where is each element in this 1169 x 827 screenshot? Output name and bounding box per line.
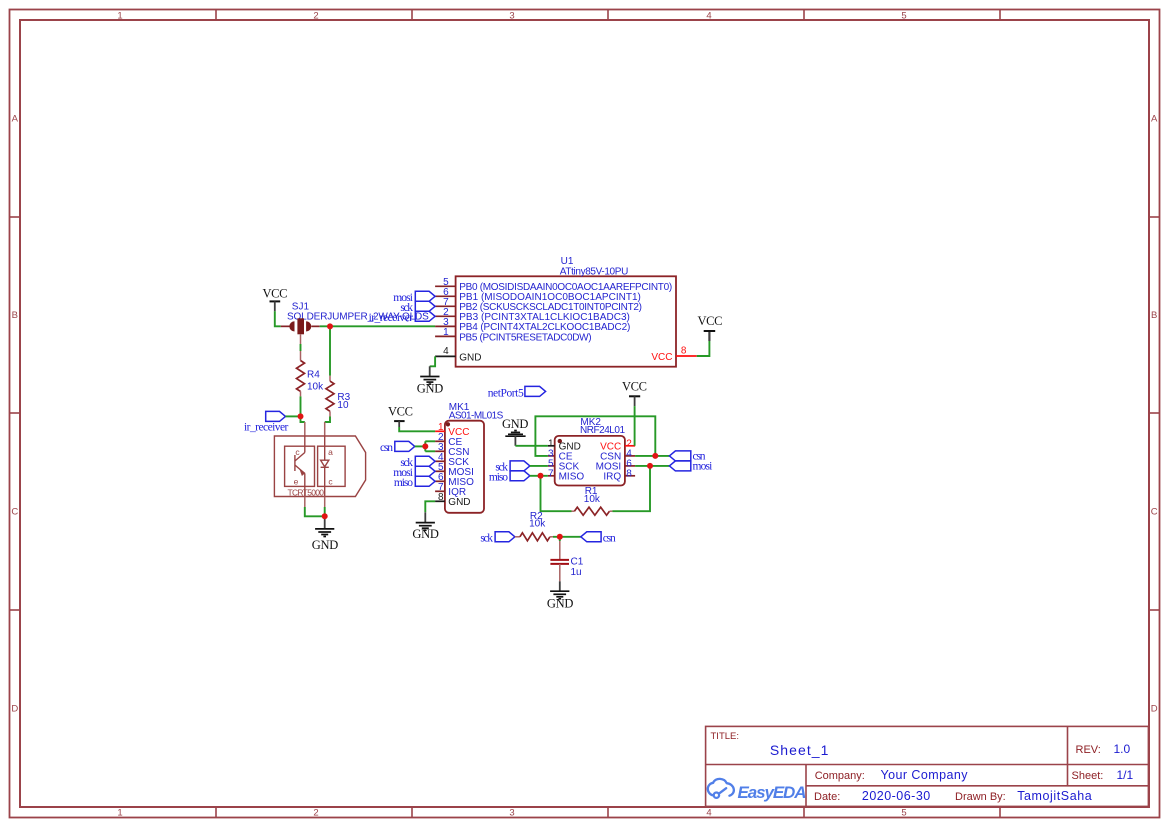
MK2 pin 6 MOSI xyxy=(625,465,635,467)
power symbol VCC at MK1 xyxy=(388,405,413,427)
wire MK1 pin8 to GND xyxy=(425,501,435,512)
wire MK2 MOSI to mosi flag xyxy=(635,465,669,467)
ruler row letters xyxy=(11,114,1158,715)
MK1 pin 2 CE xyxy=(435,440,445,442)
resistor R1 10k xyxy=(572,486,613,515)
MK2 pin1 marker dot xyxy=(558,439,562,443)
svg-text:R4: R4 xyxy=(307,369,320,380)
svg-text:2020-06-30: 2020-06-30 xyxy=(862,789,930,803)
net flag mosi at U1 PB1 xyxy=(393,291,435,304)
junction TCRT ground node xyxy=(322,513,328,519)
svg-text:sck: sck xyxy=(480,532,493,544)
resistor R2 10k xyxy=(515,511,553,541)
MK1 body box xyxy=(445,421,484,513)
svg-text:GND: GND xyxy=(502,417,529,431)
svg-text:REV:: REV: xyxy=(1076,744,1101,756)
svg-text:TCRT5000: TCRT5000 xyxy=(288,488,325,498)
svg-text:GND: GND xyxy=(547,597,574,611)
capacitor C1 1u xyxy=(550,541,583,581)
junction ir_receiver node xyxy=(298,413,304,419)
svg-text:csn: csn xyxy=(603,532,616,544)
svg-text:EasyEDA: EasyEDA xyxy=(738,783,807,802)
wire VCC to MK1 pin1 xyxy=(399,427,435,431)
svg-text:VCC: VCC xyxy=(388,405,413,419)
TCRT5000 emitter lead xyxy=(304,497,306,508)
svg-text:VCC: VCC xyxy=(698,314,723,328)
net flag mosi right of MK2 xyxy=(669,460,712,472)
net flag ir_receiver at U1 PB3 xyxy=(369,311,436,324)
svg-text:10k: 10k xyxy=(307,381,324,392)
module MK1 AS01-ML01S xyxy=(435,402,504,513)
resistor R4 10k xyxy=(297,351,325,396)
wire MK2 CE loop to CSN net xyxy=(535,416,655,456)
svg-text:MISO: MISO xyxy=(559,472,585,483)
svg-text:5: 5 xyxy=(901,11,906,22)
svg-text:ir_receiver: ir_receiver xyxy=(244,422,289,434)
ruler column numbers top xyxy=(117,11,906,819)
junction R2 C1 node xyxy=(557,534,563,540)
svg-text:PB5 (PCINT5RESETADC0DW): PB5 (PCINT5RESETADC0DW) xyxy=(459,332,591,343)
wire miso flag to MK2 MISO xyxy=(530,475,548,477)
svg-text:5: 5 xyxy=(901,808,906,819)
power symbol VCC above MK2 xyxy=(622,380,647,407)
wire SJ1 pin3 to R4 xyxy=(300,344,302,351)
SJ1 pin 2 lead xyxy=(311,325,319,327)
net flag sck at MK2 xyxy=(495,461,530,474)
svg-text:GND: GND xyxy=(459,352,481,363)
wire node down to C1 xyxy=(559,537,561,541)
svg-text:GND: GND xyxy=(412,527,439,541)
svg-text:Drawn By:: Drawn By: xyxy=(955,791,1006,803)
svg-text:3: 3 xyxy=(509,11,514,22)
svg-text:10k: 10k xyxy=(529,519,546,530)
module MK2 NRF24L01 xyxy=(548,417,635,486)
ground symbol GND left of MK2 inverted xyxy=(502,417,529,446)
net flag miso at MK1 xyxy=(394,476,435,489)
svg-text:VCC: VCC xyxy=(622,380,647,394)
svg-text:1: 1 xyxy=(117,11,122,22)
wire U1 pin8 to VCC xyxy=(697,341,710,356)
U1 pin 1 PB5 xyxy=(435,335,456,337)
SJ1 center pad xyxy=(297,318,304,334)
MK2 pin 2 VCC xyxy=(625,445,635,447)
svg-text:mosi: mosi xyxy=(693,460,713,472)
svg-text:D: D xyxy=(1151,704,1158,715)
MK2 pin 4 CSN xyxy=(625,455,635,457)
U1 pin 2 PB3 xyxy=(435,315,456,317)
net flag sck at MK1 xyxy=(400,456,435,469)
MK1 pin 7 IQR xyxy=(435,490,445,492)
resistor R3 10 xyxy=(326,376,351,417)
wire VCC to SJ1 pin1 xyxy=(275,311,281,326)
ground symbol GND below MK1 xyxy=(412,512,439,541)
wire csn flag to CE and CSN xyxy=(415,445,426,447)
wire R3 down into TCRT5000 anode xyxy=(325,417,330,423)
svg-text:8: 8 xyxy=(626,468,632,479)
svg-text:TITLE:: TITLE: xyxy=(711,731,740,742)
power symbol VCC at SJ1 xyxy=(263,287,288,312)
wire VCC down to MK2 pin2 xyxy=(634,406,636,446)
MK2 body box xyxy=(555,436,625,486)
EasyEDA logo xyxy=(708,779,734,798)
junction mosi node at MK2 xyxy=(647,463,653,469)
wire junction down to R3 xyxy=(329,326,331,375)
svg-text:TamojitSaha: TamojitSaha xyxy=(1017,789,1092,803)
U1 pin 8 VCC xyxy=(676,355,697,357)
net flag sck at R2 xyxy=(480,532,515,545)
svg-text:A: A xyxy=(12,114,19,125)
MK1 pin 4 SCK xyxy=(435,460,445,462)
svg-text:NRF24L01: NRF24L01 xyxy=(580,425,625,436)
svg-text:C: C xyxy=(1151,507,1158,518)
svg-text:ATtiny85V-10PU: ATtiny85V-10PU xyxy=(560,266,629,277)
wire TCRT cathode to ground node xyxy=(324,507,326,516)
net flag csn at MK1 xyxy=(380,441,415,453)
SJ1 right pad xyxy=(306,321,311,331)
optocoupler TCRT5000 xyxy=(274,436,365,497)
svg-text:7: 7 xyxy=(548,468,554,479)
svg-text:8: 8 xyxy=(438,492,444,503)
svg-text:4: 4 xyxy=(443,346,449,357)
TCRT5000 outer outline xyxy=(274,436,365,497)
net flag netPort5 xyxy=(488,386,546,399)
wire R1 right up to mosi node xyxy=(612,466,650,511)
MK2 pin 8 IRQ xyxy=(625,475,635,477)
svg-text:Sheet_1: Sheet_1 xyxy=(770,742,829,758)
svg-text:miso: miso xyxy=(489,471,508,483)
svg-text:3: 3 xyxy=(509,808,514,819)
U1 pin 6 PB1 xyxy=(435,295,456,297)
ground symbol GND below C1 xyxy=(547,581,574,610)
svg-text:Your Company: Your Company xyxy=(881,768,969,782)
net flag csn at R2 xyxy=(581,532,616,545)
SJ1 pin 3 lead down xyxy=(300,334,302,344)
svg-text:VCC: VCC xyxy=(263,287,288,301)
ground symbol GND below U1 xyxy=(417,366,444,395)
junction csn node at MK1 xyxy=(422,443,428,449)
svg-text:1.0: 1.0 xyxy=(1114,742,1131,756)
SJ1 pin 1 lead xyxy=(281,325,291,327)
U1 pin 4 GND xyxy=(435,355,456,357)
net flag sck at U1 PB2 xyxy=(400,301,435,314)
svg-text:2: 2 xyxy=(313,11,318,22)
wire miso node down to R1 left xyxy=(541,476,572,511)
svg-text:csn: csn xyxy=(380,442,393,454)
svg-text:SOLDERJUMPER_2WAY-QLDS: SOLDERJUMPER_2WAY-QLDS xyxy=(287,311,429,322)
svg-text:AS01-ML01S: AS01-ML01S xyxy=(449,411,504,422)
net flag mosi at MK1 xyxy=(393,466,435,479)
svg-text:10: 10 xyxy=(337,400,349,411)
TCRT5000 transistor symbol xyxy=(294,455,296,471)
svg-text:C1: C1 xyxy=(571,556,584,567)
svg-text:D: D xyxy=(11,704,18,715)
MK2 pin 7 MISO xyxy=(548,475,555,477)
MK1 pin 8 GND xyxy=(435,500,445,502)
wire R4 to ir_receiver node xyxy=(300,396,302,416)
svg-text:1/1: 1/1 xyxy=(1117,768,1134,782)
net flag ir_receiver left xyxy=(244,411,289,433)
TCRT5000 transistor box xyxy=(285,446,315,486)
junction SJ1 output node xyxy=(327,323,333,329)
MK1 pin1 marker dot xyxy=(446,422,450,426)
svg-text:Sheet:: Sheet: xyxy=(1072,770,1104,782)
TCRT5000 anode pin xyxy=(324,436,326,460)
svg-text:Date:: Date: xyxy=(814,791,840,803)
svg-text:GND: GND xyxy=(312,538,339,552)
TCRT5000 cathode lead xyxy=(324,497,326,508)
svg-text:GND: GND xyxy=(417,382,444,396)
title block grid lines xyxy=(706,726,1149,806)
svg-text:C: C xyxy=(11,507,18,518)
TCRT5000 diode box xyxy=(318,446,346,486)
wire SJ1 pin2 to U1 PB4 xyxy=(320,325,435,327)
solder jumper SJ1 xyxy=(281,302,429,345)
MK2 pin 1 GND xyxy=(548,445,555,447)
junction miso node at MK2 xyxy=(538,473,544,479)
svg-text:Company:: Company: xyxy=(815,770,865,782)
svg-text:4: 4 xyxy=(706,11,711,22)
svg-text:netPort5: netPort5 xyxy=(488,387,524,399)
power symbol VCC right of U1 xyxy=(698,314,723,341)
svg-text:1: 1 xyxy=(117,808,122,819)
wire ir_receiver flag to node xyxy=(286,415,301,417)
U1 body box xyxy=(456,276,676,366)
SJ1 left pad xyxy=(289,321,294,331)
TCRT5000 cathode pin xyxy=(324,467,326,496)
svg-text:10k: 10k xyxy=(584,494,601,505)
wire R2 to csn flag xyxy=(553,536,581,538)
svg-text:A: A xyxy=(1151,114,1158,125)
wire sck flag to MK2 SCK xyxy=(530,465,548,467)
wire GND to MK2 pin1 xyxy=(515,445,548,447)
MK1 pin 3 CSN xyxy=(435,450,445,452)
svg-text:4: 4 xyxy=(706,808,711,819)
svg-text:IRQ: IRQ xyxy=(603,472,621,483)
wire node down into TCRT5000 collector xyxy=(301,416,305,422)
svg-text:B: B xyxy=(12,310,18,321)
ground symbol GND below TCRT5000 xyxy=(312,516,339,552)
junction csn node at MK2 xyxy=(652,453,658,459)
MK1 pin 1 VCC xyxy=(435,430,445,432)
wire MK2 CSN to csn flag xyxy=(635,455,669,457)
net flag csn right of MK2 xyxy=(669,450,705,462)
MK1 pin 5 MOSI xyxy=(435,470,445,472)
MK2 pin 3 CE xyxy=(548,455,555,457)
wire TCRT emitter to ground node xyxy=(305,507,325,516)
svg-text:1u: 1u xyxy=(571,567,582,578)
svg-text:miso: miso xyxy=(394,477,413,489)
TCRT5000 collector pin xyxy=(304,436,306,453)
MK2 pin 5 SCK xyxy=(548,465,555,467)
svg-text:a: a xyxy=(328,447,333,457)
net flag miso at MK2 xyxy=(489,471,530,484)
wire U1 pin4 to GND xyxy=(430,356,435,366)
U1 pin 5 PB0 xyxy=(435,285,456,287)
svg-text:e: e xyxy=(294,477,299,487)
op-amp U1 ATtiny85V-10PU xyxy=(435,256,697,367)
svg-text:B: B xyxy=(1151,310,1157,321)
svg-text:GND: GND xyxy=(448,497,470,508)
U1 pin 7 PB2 xyxy=(435,305,456,307)
svg-text:8: 8 xyxy=(681,345,687,356)
svg-text:1: 1 xyxy=(443,327,449,338)
U1 pin 3 PB4 xyxy=(435,325,456,327)
svg-text:VCC: VCC xyxy=(651,352,672,363)
TCRT5000 diode symbol xyxy=(321,460,329,467)
TCRT5000 emitter pin xyxy=(304,474,306,497)
MK1 pin 6 MISO xyxy=(435,480,445,482)
svg-text:2: 2 xyxy=(313,808,318,819)
